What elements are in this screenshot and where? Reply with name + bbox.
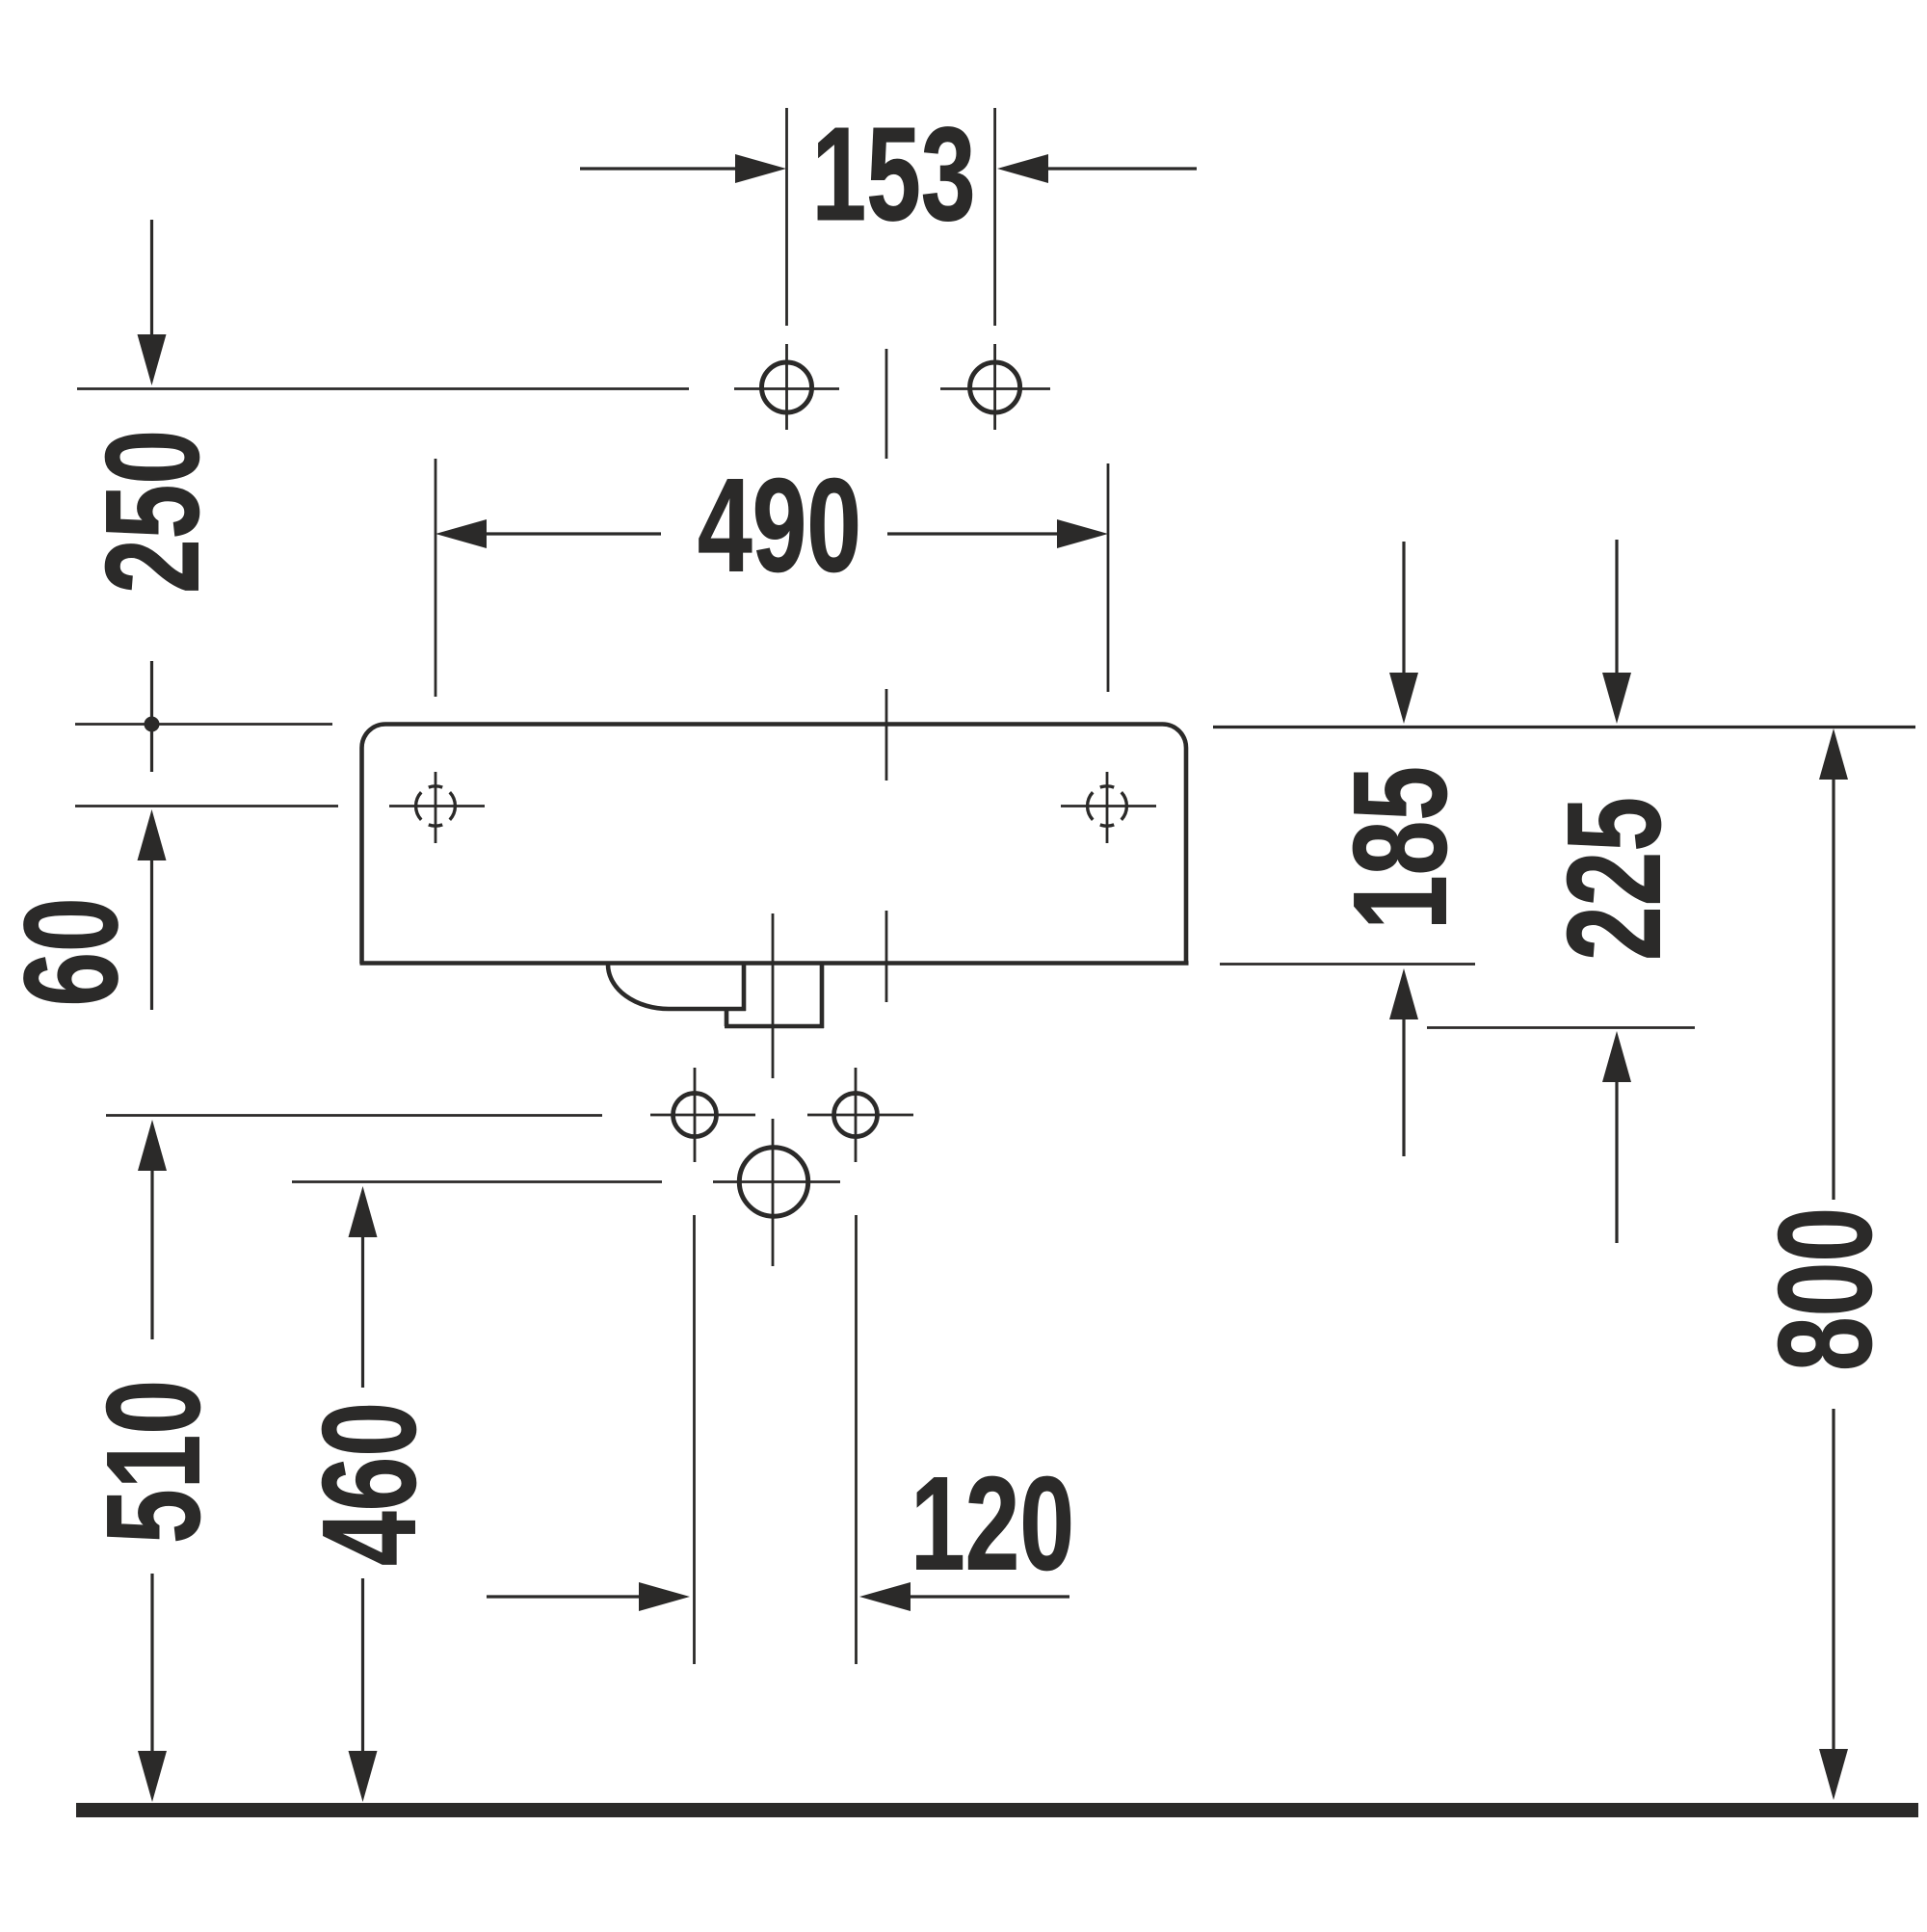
dimension 460 xyxy=(349,1186,378,1802)
basin top reference line with dot xyxy=(75,717,332,732)
svg-text:490: 490 xyxy=(698,452,861,600)
dimension 490 xyxy=(436,459,1108,697)
svg-text:225: 225 xyxy=(1541,797,1689,961)
drain vertical centerline xyxy=(772,913,775,1266)
basin outline xyxy=(360,725,1189,965)
drain fitting left edge xyxy=(725,1009,729,1026)
svg-text:460: 460 xyxy=(296,1402,444,1566)
svg-text:510: 510 xyxy=(80,1380,228,1544)
drain hole small left centermark xyxy=(650,1068,755,1162)
fixing hole left xyxy=(389,772,485,843)
svg-text:800: 800 xyxy=(1752,1207,1900,1371)
fixing hole height reference line xyxy=(75,805,338,807)
drain fitting bottom edge xyxy=(725,1024,824,1029)
tap hole left xyxy=(762,362,812,412)
svg-text:185: 185 xyxy=(1327,766,1475,930)
tap hole right centermark xyxy=(940,344,1050,430)
siphon cover arc xyxy=(608,965,669,1009)
dimension 510 xyxy=(138,1120,167,1802)
dimension 120 xyxy=(487,1215,1069,1664)
floor line xyxy=(76,1803,1918,1817)
svg-text:153: 153 xyxy=(812,100,976,249)
dimension 153 xyxy=(580,108,1197,326)
wall reference line right of basin xyxy=(1213,726,1915,728)
dimension 800 xyxy=(1819,728,1848,1800)
svg-text:250: 250 xyxy=(79,430,227,594)
drain hole small right xyxy=(834,1094,878,1137)
tap hole left centermark xyxy=(734,344,839,430)
big hole height reference line xyxy=(292,1180,662,1183)
siphon cover right edge xyxy=(742,965,747,1011)
dimension 185 xyxy=(1220,542,1475,1156)
tap hole right xyxy=(970,362,1020,412)
drain fitting right edge xyxy=(820,965,825,1028)
drain hole big xyxy=(739,1148,807,1216)
drain hole small right centermark xyxy=(807,1068,913,1162)
fixing hole right xyxy=(1061,772,1156,843)
svg-text:60: 60 xyxy=(0,898,145,1007)
svg-text:120: 120 xyxy=(911,1450,1074,1599)
small holes height reference line xyxy=(106,1114,602,1117)
tap hole height reference line xyxy=(77,387,689,390)
dimension 225 xyxy=(1427,540,1695,1243)
dimension 60 xyxy=(138,809,167,1010)
drain hole big centermark xyxy=(713,1180,840,1183)
siphon cover bottom edge xyxy=(669,1007,746,1012)
centerline between tap holes xyxy=(885,349,888,1002)
dimension 250 xyxy=(138,220,167,772)
drain hole small left xyxy=(673,1094,717,1137)
